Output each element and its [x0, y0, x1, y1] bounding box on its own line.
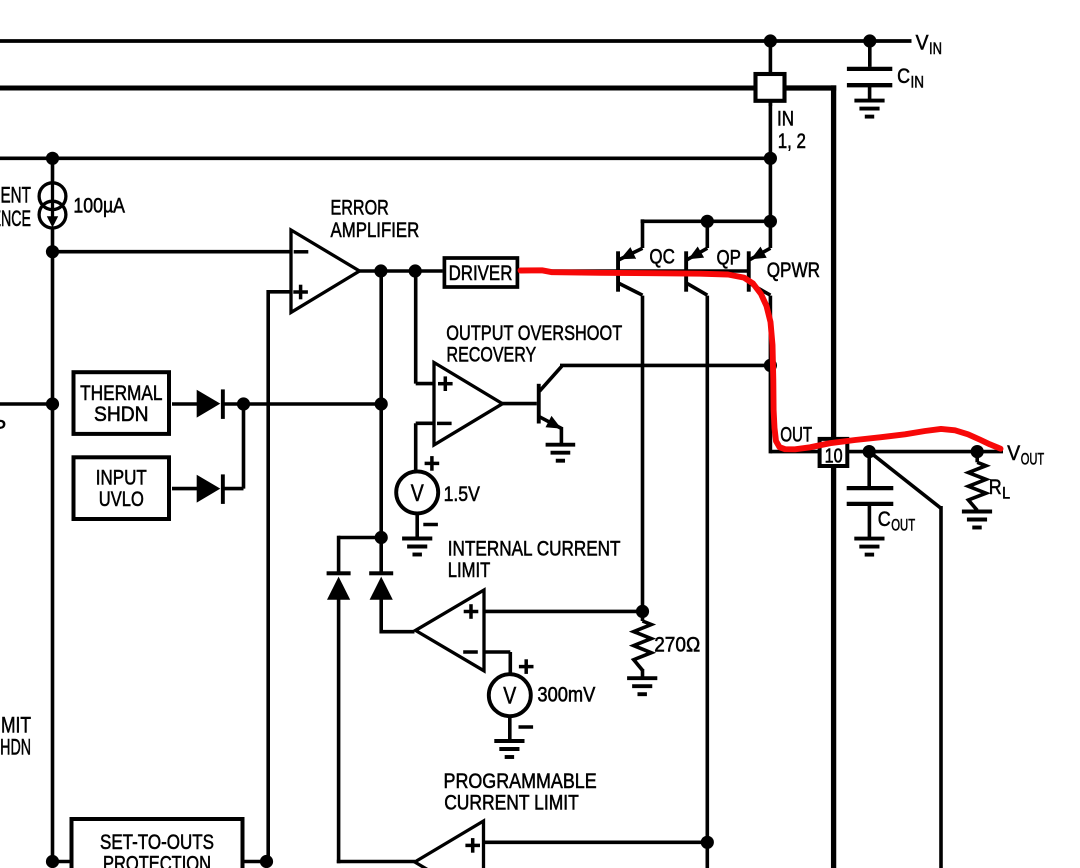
svg-text:1, 2: 1, 2 — [778, 130, 806, 153]
svg-text:IN: IN — [777, 107, 794, 130]
transistor NPN overshoot — [537, 384, 541, 424]
svg-text:IN: IN — [911, 72, 925, 91]
svg-text:QC: QC — [649, 245, 674, 268]
wire overshoot minus to 1.5V source — [414, 423, 418, 472]
svg-text:300mV: 300mV — [537, 684, 595, 707]
wire thermal shdn line left segment — [0, 402, 53, 406]
label 1.5V minus — [423, 523, 438, 527]
svg-text:PROTECTION: PROTECTION — [103, 853, 211, 868]
wire left diode down to prog amp — [337, 600, 341, 864]
wire OUTS diagonal — [869, 452, 941, 509]
wire QC collector to 270ohm — [641, 612, 645, 622]
op-amp programmable current limit — [415, 821, 484, 868]
svg-text:OUTPUT OVERSHOOT: OUTPUT OVERSHOOT — [446, 322, 622, 345]
svg-text:R: R — [989, 476, 1002, 499]
wire RL drop — [975, 452, 979, 463]
label 1.5V plus — [425, 462, 440, 466]
svg-text:OUT: OUT — [891, 515, 915, 534]
svg-text:SHDN: SHDN — [0, 735, 31, 760]
svg-text:QPWR: QPWR — [767, 259, 820, 282]
node QPWR emitter rail junction — [764, 215, 777, 228]
wire uvlo elbow up — [242, 402, 246, 489]
ground for 270ohm — [627, 676, 657, 680]
node thermal diode junction — [237, 397, 250, 410]
svg-text:RECOVERY: RECOVERY — [447, 344, 537, 367]
voltage source 1.5V — [396, 471, 438, 513]
block THERMAL SHDN box — [74, 372, 170, 434]
wire npn collector horizontal — [560, 364, 770, 368]
wire overshoot amp output to npn base — [502, 402, 537, 406]
ground for CIN — [854, 99, 884, 103]
wire OUTS vertical — [939, 506, 943, 868]
svg-text:P: P — [0, 417, 6, 440]
wire error amp plus vertical — [266, 290, 270, 862]
wire diode pair junction horizontal — [339, 536, 382, 540]
capacitor CIN — [847, 67, 892, 71]
svg-text:LIMIT: LIMIT — [0, 712, 31, 737]
node VIN-IN junction — [764, 34, 777, 47]
label overshoot minus — [437, 422, 452, 426]
svg-text:10: 10 — [825, 445, 843, 467]
wire prog amp plus input — [484, 840, 708, 844]
svg-text:C: C — [897, 65, 910, 88]
node x52 y158 junction — [46, 152, 59, 165]
wire prog amp output horizontal — [337, 860, 415, 864]
current source 100uA reference — [39, 183, 66, 228]
svg-text:SHDN: SHDN — [94, 403, 149, 426]
wire overshoot minus horizontal — [416, 421, 435, 425]
node QP emitter rail junction — [701, 215, 714, 228]
svg-text:OUT: OUT — [780, 424, 812, 447]
node COUT junction — [863, 445, 876, 458]
label error amp plus — [293, 290, 308, 294]
capacitor COUT — [847, 486, 894, 490]
node set box left junction — [46, 855, 59, 868]
wire thermal diode to junction — [224, 402, 381, 406]
svg-text:1.5V: 1.5V — [444, 483, 480, 506]
block INPUT UVLO box — [74, 457, 170, 519]
label ICL plus — [464, 610, 479, 614]
wire QPWR emitter vertical — [769, 219, 773, 248]
svg-text:OUT: OUT — [1021, 449, 1044, 468]
label 300mV minus — [519, 725, 534, 729]
svg-text:PROGRAMMABLE: PROGRAMMABLE — [444, 770, 597, 793]
svg-text:100µA: 100µA — [73, 194, 125, 217]
svg-text:C: C — [878, 508, 891, 531]
wire VIN top rail — [0, 39, 912, 43]
wire long horizontal to IN node — [0, 157, 770, 161]
node QPWR collector npn junction — [764, 359, 777, 372]
wire uvlo diode to elbow — [224, 487, 244, 491]
wire CIN to ground — [868, 85, 872, 100]
wire 300mV source to ground — [508, 715, 512, 742]
wire ICL minus input — [484, 650, 510, 654]
node set box right junction — [260, 855, 273, 868]
wire 1.5V source to ground — [415, 512, 419, 539]
wire QPWR collector vertical — [769, 296, 773, 454]
label 300mV plus — [519, 665, 534, 669]
block DRIVER box — [444, 258, 517, 287]
pad IN square — [756, 74, 785, 101]
wire ICL plus input — [484, 610, 643, 614]
wire QPWR collector to OUT pad — [770, 450, 821, 454]
wire CIN drop — [868, 41, 872, 67]
label error amp minus — [294, 250, 309, 254]
wire thermal box to diode — [172, 402, 198, 406]
wire left vertical x52 — [51, 158, 55, 184]
wire QP emitter vertical — [705, 219, 709, 248]
resistor RL — [968, 462, 986, 510]
wire emitter rail — [641, 220, 773, 224]
diode input uvlo — [197, 475, 221, 503]
red annotation trace — [521, 270, 1001, 449]
node IN drop y158 junction — [764, 152, 777, 165]
wire ICL minus down to 300mV — [508, 652, 512, 676]
svg-text:LIMIT: LIMIT — [448, 559, 491, 582]
wire npn emitter vertical — [560, 427, 564, 445]
svg-text:270Ω: 270Ω — [654, 633, 700, 656]
resistor 270ohm — [634, 621, 652, 670]
wire x381 diode to ICL amp output — [379, 600, 383, 634]
wire uvlo box to diode — [172, 487, 198, 491]
wire IN pad drop from VIN rail — [769, 41, 773, 106]
svg-text:V: V — [411, 480, 424, 507]
wire error amp plus elbow horizontal — [268, 290, 292, 294]
op-amp output overshoot recovery — [434, 363, 503, 445]
ground for 300mV — [494, 739, 524, 743]
wire left vertical x52 lower — [51, 227, 55, 862]
wire ICL output horizontal — [380, 630, 415, 634]
voltage source 300mV — [489, 674, 531, 716]
svg-text:INPUT: INPUT — [96, 467, 147, 490]
svg-text:IN: IN — [929, 39, 942, 58]
node diode pair junction — [375, 531, 388, 544]
node 270ohm junction — [636, 605, 649, 618]
wire set-to-outs box left link — [53, 860, 72, 864]
label overshoot plus — [438, 382, 453, 386]
transistor QP — [684, 251, 688, 291]
label prog plus — [465, 844, 480, 848]
wire QC emitter vertical — [641, 219, 645, 248]
svg-text:QP: QP — [717, 247, 741, 270]
wire thick right bus vertical — [831, 85, 836, 868]
op-amp internal current limit — [416, 590, 485, 671]
wire COUT to ground — [868, 504, 872, 539]
svg-text:INTERNAL CURRENT: INTERNAL CURRENT — [448, 537, 621, 560]
node current ref to error amp junction — [46, 245, 59, 258]
node error output junction A — [374, 264, 387, 277]
wire thick IN bus — [0, 86, 756, 91]
svg-text:V: V — [503, 683, 516, 710]
svg-text:V: V — [916, 32, 929, 55]
wire thick IN-to-OUT right bus horizontal — [784, 85, 836, 90]
svg-text:CURRENT: CURRENT — [0, 183, 31, 208]
wire overshoot plus vertical — [414, 271, 418, 384]
ground for NPN emitter — [546, 443, 576, 447]
svg-text:ERROR: ERROR — [331, 196, 389, 219]
svg-text:AMPLIFIER: AMPLIFIER — [331, 219, 420, 242]
wire current reference to error amp minus — [53, 250, 293, 254]
ground for COUT — [854, 537, 884, 541]
diode thermal shdn — [197, 390, 221, 418]
wire set-to-outs box right link — [243, 860, 267, 864]
svg-text:THERMAL: THERMAL — [80, 382, 162, 405]
transistor QC — [616, 251, 620, 291]
ground for 1.5V — [402, 537, 432, 541]
svg-text:L: L — [1002, 484, 1010, 503]
transistor QPWR — [747, 251, 751, 291]
wire COUT drop — [867, 452, 871, 489]
wire IN pad down to emitter rail — [769, 100, 773, 221]
label ICL minus — [463, 650, 478, 654]
diode left of pair — [327, 571, 351, 575]
wire driver to QPWR base — [518, 269, 749, 273]
wire overshoot plus horizontal — [416, 382, 435, 386]
ground for RL — [962, 510, 992, 514]
node error output junction B — [409, 264, 422, 277]
node RL junction — [971, 445, 984, 458]
op-amp error amplifier — [291, 230, 360, 312]
diode right of pair — [369, 571, 393, 575]
block SET-TO-OUTS PROTECTION box — [72, 819, 243, 868]
svg-text:CURRENT LIMIT: CURRENT LIMIT — [444, 792, 579, 815]
pad OUT square 10 — [820, 439, 848, 466]
wire OUT pad to VOUT — [847, 450, 1003, 454]
wire QP collector vertical — [705, 296, 709, 868]
svg-text:UVLO: UVLO — [99, 488, 144, 511]
wire error out down x381 — [379, 271, 383, 572]
wire left diode up elbow — [337, 536, 341, 572]
svg-text:REFERENCE: REFERENCE — [0, 206, 31, 231]
svg-text:SET-TO-OUTS: SET-TO-OUTS — [100, 831, 214, 854]
node VIN-CIN junction — [863, 34, 876, 47]
node prog plus QP junction — [701, 836, 714, 849]
node x52 thermal line junction — [46, 397, 59, 410]
wire error amp output — [359, 269, 443, 273]
svg-text:DRIVER: DRIVER — [449, 262, 513, 285]
wire QC collector vertical — [641, 296, 645, 612]
node x381 thermal line junction — [375, 397, 388, 410]
svg-text:V: V — [1007, 442, 1020, 465]
